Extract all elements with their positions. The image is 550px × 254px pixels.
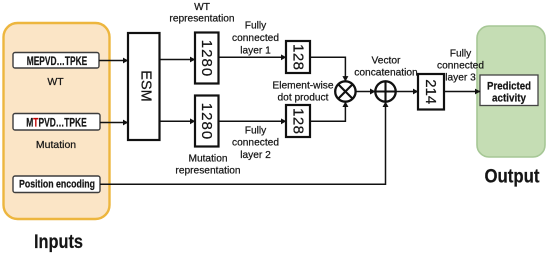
- svg-text:dot product: dot product: [278, 93, 329, 104]
- box 128 fully connected layer 1 output: [286, 41, 310, 73]
- svg-text:representation: representation: [169, 14, 234, 25]
- inputs container (orange rounded group): [4, 23, 110, 219]
- svg-text:connected: connected: [232, 33, 279, 44]
- svg-text:Vector: Vector: [372, 56, 401, 67]
- svg-text:1280: 1280: [198, 103, 215, 140]
- output container (green rounded group): [477, 26, 545, 157]
- wire ESM to 1280 Mutation: [160, 120, 196, 122]
- svg-text:WT: WT: [47, 76, 64, 88]
- svg-text:Element-wise: Element-wise: [272, 81, 333, 92]
- svg-text:Fully: Fully: [450, 49, 472, 60]
- wire Mutation box to ESM: [100, 122, 128, 124]
- svg-text:128: 128: [290, 108, 307, 134]
- input box Mutation sequence MTPVD...TPKE: [13, 114, 100, 131]
- wire 1280 to 128 layer 2: [219, 120, 287, 122]
- input box WT sequence MEPVD...TPKE: [13, 53, 99, 69]
- wire concatenation to 214: [396, 91, 418, 93]
- wire 128 layer1 to dot product (down into circle): [310, 57, 345, 81]
- svg-text:WT: WT: [194, 2, 210, 13]
- svg-text:128: 128: [290, 44, 307, 70]
- label WT representation: [169, 2, 234, 25]
- svg-text:MTPVD…TPKE: MTPVD…TPKE: [26, 118, 87, 130]
- svg-text:214: 214: [422, 79, 439, 104]
- wire dot product to concatenation: [356, 91, 376, 93]
- wire 214 to predicted activity: [444, 91, 480, 93]
- element-wise dot product operator circle: [335, 81, 355, 101]
- svg-text:Fully: Fully: [245, 21, 267, 32]
- svg-text:connected: connected: [232, 138, 279, 149]
- label Fully connected layer 3: [437, 49, 484, 84]
- label Mutation: [36, 139, 76, 151]
- box 128 fully connected layer 2 output: [286, 105, 310, 137]
- svg-text:Position encoding: Position encoding: [19, 179, 95, 191]
- box 214 concatenated vector: [418, 74, 444, 110]
- label Output: [485, 167, 541, 188]
- label Inputs: [34, 232, 83, 253]
- predicted activity box: [480, 75, 538, 106]
- svg-text:ESM: ESM: [137, 70, 153, 101]
- wire ESM to 1280 WT: [160, 59, 196, 61]
- svg-text:layer 2: layer 2: [240, 150, 271, 161]
- label Vector concatenation: [354, 56, 417, 79]
- label Fully connected layer 1: [232, 21, 279, 57]
- svg-text:concatenation: concatenation: [354, 68, 417, 79]
- svg-text:layer 3: layer 3: [445, 73, 476, 84]
- svg-text:Inputs: Inputs: [34, 232, 83, 253]
- input box Position encoding: [13, 176, 100, 193]
- svg-text:1280: 1280: [198, 40, 215, 77]
- wire 128 layer2 to dot product (up into circle): [310, 102, 345, 122]
- wire 1280 to 128 layer 1: [219, 56, 287, 58]
- svg-text:representation: representation: [175, 166, 240, 177]
- label Element-wise dot product: [272, 81, 333, 104]
- svg-text:Mutation: Mutation: [36, 139, 76, 151]
- svg-text:connected: connected: [437, 61, 484, 72]
- svg-text:MEPVD…TPKE: MEPVD…TPKE: [27, 56, 88, 68]
- box 1280 Mutation representation: [195, 96, 219, 147]
- label Fully connected layer 2: [232, 126, 279, 162]
- ESM model box: [128, 33, 160, 140]
- svg-text:activity: activity: [492, 93, 527, 105]
- wire WT box to ESM: [99, 60, 128, 62]
- svg-text:Predicted: Predicted: [487, 81, 531, 93]
- svg-text:Mutation: Mutation: [188, 154, 227, 165]
- svg-text:Output: Output: [485, 167, 541, 188]
- vector concatenation operator circle: [375, 81, 395, 101]
- svg-text:Fully: Fully: [245, 126, 267, 137]
- label WT: [47, 76, 64, 88]
- box 1280 WT representation: [195, 33, 219, 84]
- wire position encoding to concatenation: [100, 102, 386, 184]
- svg-text:layer 1: layer 1: [240, 46, 271, 57]
- label Mutation representation: [175, 154, 240, 177]
